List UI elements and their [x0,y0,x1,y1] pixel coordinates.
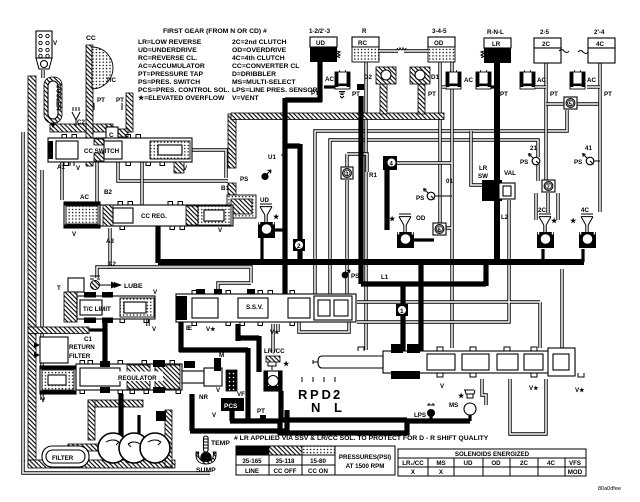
svg-text:UD: UD [260,197,269,204]
svg-text:PT: PT [116,97,124,104]
wire 01 line [397,62,452,348]
wire node2 to bus [297,250,302,262]
node 4 [383,156,397,170]
wire pump risers [118,394,123,436]
sensor LPS [414,403,435,419]
svg-text:4C=4th CLUTCH: 4C=4th CLUTCH [232,55,285,62]
wire RC col down [364,61,367,350]
svg-text:TEMP: TEMP [211,440,230,447]
svg-text:PS: PS [574,159,582,166]
svg-text:PT: PT [352,91,360,98]
wire SSV to LR/CC feed [236,336,259,372]
svg-text:VAL: VAL [504,170,516,177]
solenoid 2C column [534,29,569,98]
wire UD piston drain [260,238,263,262]
svg-text:3-4-5: 3-4-5 [432,28,447,35]
svg-text:U1: U1 [268,154,276,161]
svg-text:PT=PRESSURE TAP: PT=PRESSURE TAP [138,71,203,78]
svg-text:E: E [188,325,192,332]
svg-text:REGULATOR: REGULATOR [118,375,157,382]
svg-text:2'-4: 2'-4 [594,29,605,36]
dribbler C2 [72,107,85,126]
wire A1 down [60,161,63,200]
oil filter [42,446,89,467]
svg-text:AC=ACCUMULATOR: AC=ACCUMULATOR [138,63,205,70]
svg-text:D1: D1 [431,74,439,81]
svg-text:CC ON: CC ON [308,468,328,475]
clutch OD [389,214,426,248]
svg-text:SW: SW [478,173,488,180]
svg-text:L1: L1 [381,274,389,281]
wire node7 to 2C clutch loop [536,193,558,220]
svg-text:2C=2nd CLUTCH: 2C=2nd CLUTCH [232,39,287,46]
svg-text:MOD: MOD [568,469,583,476]
valve MANUAL [313,344,585,394]
wire LR/CC feed [271,324,274,352]
solenoid MS [449,390,476,415]
wire E drain [178,294,183,352]
wire connector to cooler [41,70,44,78]
svg-text:PRESSURES(PSI): PRESSURES(PSI) [339,454,391,461]
wire hatched D channel [231,113,444,120]
svg-text:21: 21 [530,145,537,152]
svg-text:A1: A1 [57,164,65,171]
svg-text:MS=MULTI-SELECT: MS=MULTI-SELECT [232,79,296,86]
svg-text:AT 1500 RPM: AT 1500 RPM [346,463,385,470]
svg-text:FIRST GEAR (FROM N OR CD) #: FIRST GEAR (FROM N OR CD) # [163,28,267,35]
svg-text:PS=PRES. SWITCH: PS=PRES. SWITCH [138,79,200,86]
svg-text:PS: PS [351,273,359,280]
clutch 2C [537,207,558,248]
svg-text:L: L [334,400,342,415]
wire pump stub [156,411,166,421]
svg-text:C2: C2 [77,119,85,126]
svg-text:2-5: 2-5 [540,29,550,36]
wire main bus L1 [158,259,584,265]
svg-text:AC: AC [325,76,334,83]
switch PS (41) [574,145,600,166]
svg-text:VFS: VFS [569,460,581,467]
wire OD col down to node6 [438,62,441,224]
svg-text:COOLER: COOLER [55,84,62,111]
wire 2C col down [544,62,547,181]
svg-text:4C: 4C [581,207,589,214]
wire hatched T/C wall [86,45,93,166]
solenoid RC column [352,28,379,98]
svg-text:41: 41 [585,145,592,152]
svg-text:35-165: 35-165 [242,458,262,465]
wire hatched bottom wall [28,460,175,468]
wire MS loop [482,379,486,405]
switch LR SW + VAL [478,165,516,201]
switch PS (21) [520,145,540,166]
wire PCS drain [230,411,409,435]
accumulator AC (4C col) [570,70,600,89]
wire VAL feed [471,131,482,185]
node 7 [542,180,555,192]
svg-text:V★: V★ [270,329,280,336]
dribbler D1 [410,67,439,84]
gear letters [298,377,342,415]
svg-text:PS: PS [416,195,424,202]
valve CC REG [64,185,233,268]
svg-text:T: T [57,285,61,292]
svg-text:V★: V★ [206,326,216,333]
svg-text:SOLENOIDS ENERGIZED: SOLENOIDS ENERGIZED [455,451,530,458]
svg-text:T/C LIMIT: T/C LIMIT [83,306,111,313]
svg-text:★: ★ [570,217,577,225]
converter T/C [86,35,116,89]
wire node4 down [384,168,389,230]
svg-text:V=VENT: V=VENT [232,95,259,102]
solenoid table [398,449,586,476]
wire PS21 to node7 [536,165,539,181]
svg-text:PS: PS [240,176,248,183]
svg-text:B1: B1 [221,185,229,192]
dribbler D2 [364,67,396,84]
node 1 [396,304,408,316]
svg-text:CC REG.: CC REG. [141,213,167,220]
wire manual valve bottom loop [510,379,546,434]
svg-text:OD: OD [416,215,426,222]
svg-text:2: 2 [297,243,301,250]
svg-text:N: N [311,400,320,415]
wire A2 line [108,267,251,294]
svg-text:B2: B2 [104,189,112,196]
svg-text:OD=OVERDRIVE: OD=OVERDRIVE [232,47,287,54]
wire hatched pump enclosure left [88,400,95,440]
wire hatched C port elbow [126,93,133,132]
solenoid UD column [309,28,340,97]
wire 4C piston drain [581,249,584,262]
svg-text:LINE: LINE [245,468,259,475]
wire LR main [494,62,500,262]
svg-text:LR: LR [479,165,488,172]
svg-text:UD: UD [316,40,325,47]
svg-text:FILTER: FILTER [52,455,74,462]
node 5 [564,97,577,109]
wire 4C feed line [598,62,601,212]
wire manual valve feeds right [357,200,562,348]
solenoid OD column [428,28,455,98]
svg-text:LR₁/CC: LR₁/CC [402,460,424,467]
valve T/C LIMIT [57,278,158,364]
solenoid LR column [481,29,511,98]
wire node1 drop [400,284,405,355]
svg-text:AC: AC [587,77,596,84]
wire LPS stub [429,416,432,421]
wire hatched pump enclosure top [88,400,143,407]
wire hatched drain [28,327,89,334]
svg-text:NR: NR [199,394,208,401]
svg-text:MS: MS [436,460,445,467]
svg-text:L2: L2 [501,214,509,221]
svg-text:AC: AC [80,194,89,201]
wire SSV bottoms [276,324,279,332]
svg-text:S.S.V.: S.S.V. [246,304,263,311]
pump assembly [98,433,170,463]
wire left border outer [21,132,24,462]
valve S.S.V. [176,291,356,337]
svg-text:CC SWITCH: CC SWITCH [84,148,120,155]
wire RC-OD link [379,49,428,52]
wire sump bottom return [23,460,210,473]
svg-text:UD: UD [464,460,473,467]
wire LR/CC drain [279,391,407,421]
wire hatched D2 drop [380,84,387,114]
solenoid LR/CC [264,348,290,391]
svg-text:4C: 4C [596,41,604,48]
svg-text:AC: AC [464,77,473,84]
svg-text:80a0dfee: 80a0dfee [598,486,621,492]
wire MS drop [468,413,471,421]
node 2 [293,239,305,251]
switch PS (U1) [240,170,271,183]
svg-text:V★: V★ [529,385,539,392]
svg-text:C1: C1 [84,336,92,343]
svg-text:MS: MS [449,402,458,409]
wire E to PCS riser [179,348,248,421]
wire MS link [405,421,470,435]
accumulator AC (UD col) [324,70,350,98]
wire bus2 L1 lower [361,265,486,286]
svg-text:PS: PS [520,159,528,166]
svg-text:PT: PT [550,91,558,98]
svg-text:CC=CONVERTER CL: CC=CONVERTER CL [232,63,299,70]
svg-text:R: R [362,28,367,35]
wire UD solenoid down [285,62,322,294]
svg-text:LR,/CC: LR,/CC [264,348,285,355]
wire CC REG down [155,222,160,263]
return filter [34,337,95,363]
wire R1 loop [347,154,367,294]
svg-text:R1: R1 [369,172,377,179]
wire 2C piston drain [541,249,544,262]
svg-text:PCS: PCS [224,403,238,410]
wire B1 line [192,150,226,178]
wire B2 line [118,161,228,181]
svg-text:V★: V★ [575,387,585,394]
svg-text:SUMP: SUMP [196,467,216,474]
wire SSV right U loop [299,322,349,332]
svg-text:AC: AC [537,77,546,84]
svg-text:★: ★ [389,215,396,223]
svg-text:PT: PT [257,408,265,415]
valve S.S.V. ports [196,289,205,295]
switch PS (01) [416,189,440,203]
svg-text:★: ★ [283,360,290,368]
svg-text:LR: LR [492,41,501,48]
wire bus1 to valve drop [418,265,423,355]
wire hatched B1 end box [227,195,256,218]
pressure table [236,446,395,475]
svg-text:35-118: 35-118 [276,458,295,465]
wire OD piston to node6 [414,238,434,241]
wire hatched cooler return [50,124,113,132]
svg-text:# LR APPLIED VIA SSV & LR/CC S: # LR APPLIED VIA SSV & LR/CC SOL. TO PRO… [234,435,489,442]
wire node5 left stub [546,102,564,105]
solenoid 4C column [578,29,615,98]
svg-text:PT: PT [428,91,436,98]
wire hatched corner to B-channel [228,114,236,168]
svg-text:1: 1 [400,308,404,315]
wire RC thick [357,84,364,90]
svg-text:★: ★ [273,213,280,221]
valve CC SWITCH [48,135,192,174]
wire pipe B: SSV to 21 line [330,140,538,296]
svg-text:T/C: T/C [106,77,116,84]
wire hatched D1 drop [418,84,425,114]
wire pipe A: SSV to node5 [315,110,567,294]
svg-text:D: D [322,387,331,402]
svg-text:A3: A3 [106,238,114,245]
svg-text:LPS: LPS [414,412,426,419]
port label C [116,129,128,137]
wire regulator NR down [190,394,287,433]
svg-text:LUBE: LUBE [124,283,143,290]
svg-text:LR=LOW REVERSE: LR=LOW REVERSE [138,39,202,46]
solenoid PCS [212,398,266,419]
wire A3 down from CC REG [97,228,110,278]
svg-text:R: R [298,387,308,402]
svg-text:D=DRIBBLER: D=DRIBBLER [232,71,276,78]
wire node5 right stub [576,102,600,105]
svg-text:FILTER: FILTER [69,353,91,360]
svg-text:★=ELEVATED OVERFLOW: ★=ELEVATED OVERFLOW [138,94,225,102]
lube circuit [90,276,143,290]
svg-text:CC: CC [86,35,96,42]
wire node7 bottom to funnel [546,193,549,213]
svg-text:OD: OD [491,460,501,467]
wire hatched filter link [68,444,102,451]
label U1 [268,154,286,161]
svg-text:★: ★ [551,217,558,225]
svg-text:PCS=PRES. CONTROL SOL.: PCS=PRES. CONTROL SOL. [138,87,230,94]
legend column 2 [232,39,318,102]
svg-text:PT: PT [500,91,508,98]
svg-text:UD=UNDERDRIVE: UD=UNDERDRIVE [138,47,197,54]
clutch UD [258,197,284,238]
svg-text:01: 01 [446,178,453,185]
wire left inner vertical [40,170,43,400]
svg-text:RC: RC [358,40,367,47]
svg-text:RETURN: RETURN [69,344,95,351]
svg-text:CC OFF: CC OFF [273,468,296,475]
svg-text:2C: 2C [520,460,528,467]
wire AC-CCREG vertical [95,161,98,202]
svg-text:PT: PT [97,97,105,104]
temp sensor [196,436,230,474]
wire T/C limit bottom V [146,318,149,326]
connector J1 [36,31,58,69]
svg-text:A2: A2 [108,261,116,268]
valve REGULATOR [40,352,245,404]
accumulator AC (OD col) [442,70,473,89]
node 6 [433,223,446,235]
svg-text:LPS=LINE PRES. SENSOR: LPS=LINE PRES. SENSOR [232,87,318,94]
wire SSV port drop [235,324,240,341]
wire PS 01 stub [440,195,452,197]
accumulator AC (2C col) [520,70,546,89]
svg-text:15-80: 15-80 [310,458,326,465]
wire hatched pump enclosure right [165,410,172,467]
legend column 1 [138,39,230,102]
clutch 4C [570,207,596,248]
cooler [44,77,62,128]
svg-text:R-N-L: R-N-L [487,29,504,36]
switch PS (bus) [342,270,360,280]
svg-text:2C: 2C [538,207,546,214]
node 3 [341,167,353,179]
svg-text:RC=REVERSE CL.: RC=REVERSE CL. [138,55,197,62]
svg-text:1-2/2'-3: 1-2/2'-3 [309,28,331,35]
wire hatched left wall [28,76,36,466]
svg-text:PT: PT [604,91,612,98]
accumulator AC (LR col) [476,70,497,89]
svg-text:2C: 2C [542,41,550,48]
svg-text:PT: PT [311,90,319,97]
wire CC SWITCH drop [140,162,143,205]
svg-text:VF: VF [237,391,245,398]
svg-text:OD: OD [434,40,444,47]
svg-text:★: ★ [458,392,465,400]
svg-text:4C: 4C [547,460,555,467]
svg-text:M: M [219,352,224,359]
wire U1 branch to node2 [283,144,300,240]
svg-text:D2: D2 [364,74,372,81]
